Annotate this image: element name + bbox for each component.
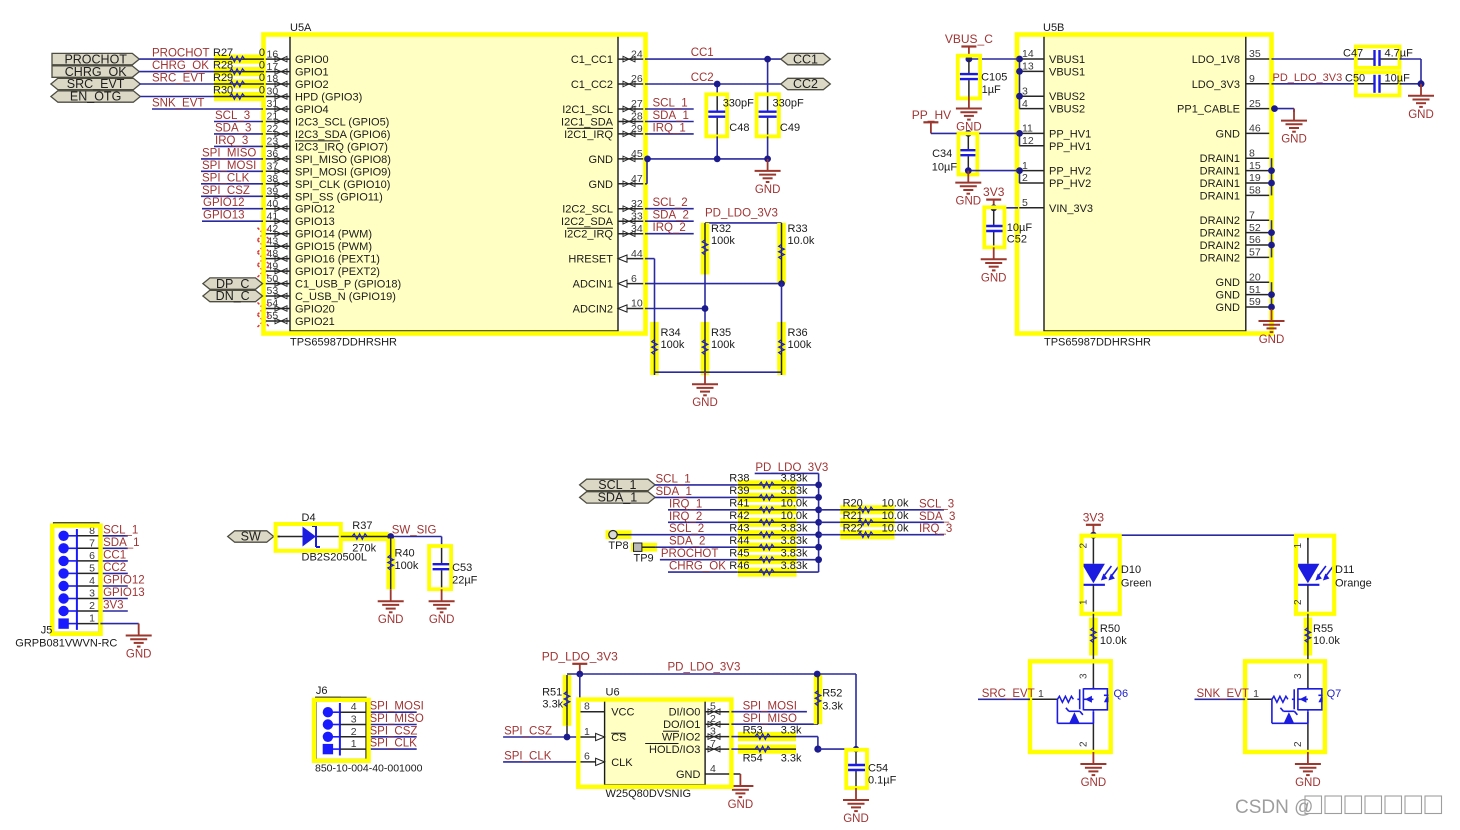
wire R41 to bus xyxy=(797,509,819,511)
resistor R53 3.3k xyxy=(738,732,796,741)
svg-text:100k: 100k xyxy=(711,339,735,351)
svg-text:DO/IO1: DO/IO1 xyxy=(663,719,700,731)
U5A pin 17 GPIO1 xyxy=(263,71,290,73)
wire J5 net CC2 xyxy=(100,572,127,574)
svg-text:6: 6 xyxy=(631,273,637,285)
port PROCHOT xyxy=(52,53,139,64)
capacitor C34 10uF xyxy=(967,133,969,149)
svg-text:VCC: VCC xyxy=(611,707,634,719)
svg-text:22µF: 22µF xyxy=(452,575,478,587)
ground below U6 pin4 xyxy=(727,774,753,797)
connector J6 850-10-004-40-001000 body xyxy=(316,697,366,759)
wire SNK_EVT xyxy=(152,108,263,110)
U5A pin 28 I2C1_SDA xyxy=(618,121,645,123)
wire J6 net SPI_CSZ xyxy=(369,736,417,738)
U5B pin 12 PP_HV1 xyxy=(1018,145,1044,147)
resistor R34 100k xyxy=(650,322,659,375)
svg-text:52: 52 xyxy=(1249,222,1261,234)
svg-text:50: 50 xyxy=(267,273,279,285)
junction C52 top xyxy=(990,204,997,211)
svg-text:SDA_3: SDA_3 xyxy=(919,511,955,523)
svg-text:3.3k: 3.3k xyxy=(781,724,802,736)
ground below pin25 xyxy=(1281,109,1307,132)
J5 pin 6 xyxy=(58,556,68,566)
svg-text:C53: C53 xyxy=(452,562,472,574)
U6 pin 2 DO/IO1 xyxy=(705,723,731,725)
svg-text:IRQ_1: IRQ_1 xyxy=(669,498,702,510)
U6 pin 1 CS xyxy=(578,736,604,738)
junction C105 top xyxy=(966,56,973,63)
wire net IRQ_1 xyxy=(645,133,694,135)
svg-text:R28: R28 xyxy=(213,59,233,71)
junction CC1/C49 xyxy=(764,56,771,63)
svg-text:11: 11 xyxy=(1022,123,1033,135)
wire net CHRG_OK xyxy=(139,71,214,73)
svg-text:CC2: CC2 xyxy=(691,72,714,84)
resistor R44 3.83k xyxy=(738,543,797,552)
port SCL_1 xyxy=(580,479,656,490)
wire TP8 to R43 xyxy=(630,534,668,536)
svg-text:PP_HV2: PP_HV2 xyxy=(1049,178,1091,190)
svg-text:4: 4 xyxy=(89,575,95,587)
wire net SPI_CSZ xyxy=(201,195,263,197)
wire J6 net SPI_MISO xyxy=(369,724,417,726)
U5A pin 44 HRESET xyxy=(618,258,645,260)
ground below C34 xyxy=(955,171,981,194)
svg-text:C1_CC1: C1_CC1 xyxy=(571,54,613,66)
svg-text:5: 5 xyxy=(89,562,95,574)
capacitor C52 10uF xyxy=(993,208,995,225)
wire R21 to net SDA_3 xyxy=(895,521,944,523)
U5B pin 19 DRAIN1 xyxy=(1246,182,1272,184)
U5A pin 16 GPIO0 xyxy=(263,58,290,60)
svg-text:CLK: CLK xyxy=(611,757,633,769)
wire J5 net GPIO12 xyxy=(100,585,127,587)
svg-text:SW: SW xyxy=(241,530,261,544)
svg-text:I2C3_IRQ (GPIO7): I2C3_IRQ (GPIO7) xyxy=(295,141,388,153)
svg-text:13: 13 xyxy=(1022,61,1034,73)
op-amp U5B IC body TPS65987DDHRSHR xyxy=(1044,36,1246,332)
svg-text:SCL_1: SCL_1 xyxy=(656,473,691,485)
svg-text:I2C3_SDA (GPIO6): I2C3_SDA (GPIO6) xyxy=(295,129,390,141)
svg-text:4: 4 xyxy=(710,763,716,775)
svg-text:3: 3 xyxy=(89,588,95,600)
junction D10 top xyxy=(1090,532,1097,539)
U5B pin 13 VBUS1 xyxy=(1018,70,1044,72)
svg-text:GND: GND xyxy=(429,614,455,626)
wire ADCIN1 xyxy=(645,283,782,285)
wire SPI_MOSI xyxy=(731,711,807,713)
wire net IRQ_3 xyxy=(214,145,263,147)
svg-text:8: 8 xyxy=(584,701,590,713)
svg-text:1: 1 xyxy=(89,613,95,625)
wire net SDA_1 xyxy=(645,121,694,123)
wire C50 to junction xyxy=(1400,83,1422,85)
svg-text:GPIO13: GPIO13 xyxy=(203,210,245,222)
svg-text:DN_C: DN_C xyxy=(216,289,250,303)
U5B pin 46 GND xyxy=(1246,132,1272,134)
svg-text:R55: R55 xyxy=(1313,623,1333,635)
svg-text:R39: R39 xyxy=(729,485,749,497)
svg-text:LDO_1V8: LDO_1V8 xyxy=(1192,54,1240,66)
svg-text:10.0k: 10.0k xyxy=(882,498,909,510)
test point TP9 xyxy=(631,543,657,552)
svg-text:SPI_MISO: SPI_MISO xyxy=(743,713,797,725)
svg-text:3.83k: 3.83k xyxy=(781,523,808,535)
svg-text:J5: J5 xyxy=(41,625,53,637)
wire 3V3 rail to D11 xyxy=(1093,534,1308,536)
U5B pin 11 PP_HV1 xyxy=(1018,132,1044,134)
wire net SCL_2 xyxy=(668,534,738,536)
svg-text:2: 2 xyxy=(89,600,95,612)
wire 3V3 to pin5 xyxy=(994,207,1018,209)
svg-text:J6: J6 xyxy=(316,685,328,697)
wire SPI_CSZ xyxy=(503,736,578,738)
svg-text:3.83k: 3.83k xyxy=(781,560,808,572)
U5B pin 25 PP1_CABLE xyxy=(1246,108,1272,110)
svg-text:53: 53 xyxy=(267,285,279,297)
svg-text:4.7µF: 4.7µF xyxy=(1385,48,1414,60)
svg-text:GPIO13: GPIO13 xyxy=(295,216,335,228)
svg-text:SRC_EVT: SRC_EVT xyxy=(982,688,1035,700)
svg-text:22: 22 xyxy=(267,123,279,135)
wire bus to R22 xyxy=(819,534,841,536)
svg-text:SCL_1: SCL_1 xyxy=(653,98,688,110)
svg-text:SPI_CSZ: SPI_CSZ xyxy=(370,725,418,737)
ground below Q7 xyxy=(1295,752,1321,775)
svg-text:PD_LDO_3V3: PD_LDO_3V3 xyxy=(668,661,741,673)
connector J5 GRPB081VWVN-RC body xyxy=(54,523,100,633)
junction R40 top xyxy=(387,533,394,540)
J5 pin 3 xyxy=(58,593,68,603)
wire R20 to net SCL_3 xyxy=(895,509,944,511)
wire PD_LDO_3V3 xyxy=(705,222,782,224)
svg-text:VBUS2: VBUS2 xyxy=(1049,104,1085,116)
svg-text:I2C2_SCL: I2C2_SCL xyxy=(562,204,613,216)
svg-text:C52: C52 xyxy=(1007,234,1027,246)
svg-text:GRPB081VWVN-RC: GRPB081VWVN-RC xyxy=(15,638,117,650)
junction pin13 xyxy=(1016,68,1023,75)
U5B pin 3 VBUS2 xyxy=(1018,95,1044,97)
svg-text:PD_LDO_3V3: PD_LDO_3V3 xyxy=(705,208,778,220)
svg-text:GND: GND xyxy=(676,769,701,781)
svg-text:47: 47 xyxy=(631,173,643,185)
svg-text:I2C1_SDA: I2C1_SDA xyxy=(561,117,614,129)
capacitor C105 1uF xyxy=(968,59,970,73)
svg-text:EN_OTG: EN_OTG xyxy=(70,90,121,104)
wire R37 to SW_SIG node xyxy=(389,536,442,538)
resistor R38 3.83k xyxy=(738,480,797,489)
wire HRESET xyxy=(645,258,655,260)
svg-text:Green: Green xyxy=(1121,578,1152,590)
svg-text:14: 14 xyxy=(1022,48,1034,60)
svg-text:3: 3 xyxy=(710,726,716,738)
svg-text:DRAIN2: DRAIN2 xyxy=(1200,228,1240,240)
wire PP1_CABLE xyxy=(1272,108,1295,110)
svg-text:SPI_CLK: SPI_CLK xyxy=(202,172,250,184)
svg-text:SDA_2: SDA_2 xyxy=(653,210,689,222)
port DP_C xyxy=(203,278,263,289)
svg-text:R40: R40 xyxy=(395,548,415,560)
junction bus row 2 xyxy=(815,506,822,513)
svg-text:R34: R34 xyxy=(661,327,681,339)
svg-text:VBUS2: VBUS2 xyxy=(1049,91,1085,103)
svg-text:SDA_1: SDA_1 xyxy=(653,110,689,122)
svg-text:R50: R50 xyxy=(1100,623,1120,635)
U5A pin 21 I2C3_SCL (GPIO5) xyxy=(263,121,290,123)
svg-text:28: 28 xyxy=(631,111,643,123)
U5B pin 7 DRAIN2 xyxy=(1246,219,1272,221)
svg-text:26: 26 xyxy=(631,73,643,85)
svg-text:LDO_3V3: LDO_3V3 xyxy=(1192,79,1240,91)
svg-text:R52: R52 xyxy=(822,687,842,699)
junction pin11 xyxy=(1016,130,1023,137)
svg-text:GPIO1: GPIO1 xyxy=(295,67,329,79)
svg-text:10µF: 10µF xyxy=(1385,72,1411,84)
svg-text:2: 2 xyxy=(1078,741,1089,747)
U5A pin 34 I2C2_IRQ xyxy=(618,233,645,235)
resistor R51 3.3k xyxy=(563,675,572,726)
svg-text:3.3k: 3.3k xyxy=(822,700,843,712)
wire net GPIO13 xyxy=(202,220,263,222)
junction pin52 xyxy=(1268,229,1275,236)
resistor R20 10.0k xyxy=(840,505,894,514)
svg-text:15: 15 xyxy=(1249,160,1261,172)
capacitor C48 330pF xyxy=(716,95,718,111)
svg-text:100k: 100k xyxy=(711,235,735,247)
svg-text:TPS65987DDHRSHR: TPS65987DDHRSHR xyxy=(1044,337,1151,349)
svg-text:3V3: 3V3 xyxy=(1083,510,1105,524)
U5B pin 56 DRAIN2 xyxy=(1246,244,1272,246)
wire C47 to corner xyxy=(1400,58,1422,60)
svg-text:I2C2_IRQ: I2C2_IRQ xyxy=(564,229,613,241)
junction pin14 xyxy=(1016,56,1023,63)
wire R53 to R54 row xyxy=(796,736,818,738)
svg-text:GPIO4: GPIO4 xyxy=(295,104,329,116)
U5B pin 20 GND xyxy=(1246,281,1272,283)
U5A pin 29 I2C1_IRQ xyxy=(618,133,645,135)
svg-text:IRQ_2: IRQ_2 xyxy=(653,222,686,234)
J6 pin 2 xyxy=(323,732,333,742)
svg-text:45: 45 xyxy=(631,148,643,160)
svg-text:SPI_MOSI (GPIO9): SPI_MOSI (GPIO9) xyxy=(295,166,391,178)
U5A pin 54 GPIO20 xyxy=(263,308,290,310)
wire J6 net SPI_MOSI xyxy=(369,711,417,713)
wire net SRC_EVT xyxy=(139,83,214,85)
no-connect pin 42 xyxy=(258,228,270,240)
svg-text:40: 40 xyxy=(267,198,279,210)
resistor R41 10.0k xyxy=(738,505,797,514)
U5B pin 9 LDO_3V3 xyxy=(1246,83,1272,85)
wire net GPIO12 xyxy=(202,208,263,210)
svg-text:SPI_MOSI: SPI_MOSI xyxy=(743,700,797,712)
wire R22 to net IRQ_3 xyxy=(895,534,944,536)
svg-text:D11: D11 xyxy=(1335,564,1354,576)
wire C48/C49 to GND rail xyxy=(716,136,718,159)
svg-text:SDA_1: SDA_1 xyxy=(103,537,139,549)
svg-text:C47: C47 xyxy=(1343,48,1363,60)
svg-text:R20: R20 xyxy=(843,498,863,510)
svg-text:C1_CC2: C1_CC2 xyxy=(571,79,613,91)
svg-text:GND: GND xyxy=(1081,777,1107,789)
junction R53/R54 xyxy=(814,746,821,753)
svg-text:3.83k: 3.83k xyxy=(781,535,808,547)
svg-text:W25Q80DVSNIG: W25Q80DVSNIG xyxy=(606,788,692,800)
wire LDO_1V8 to C47 xyxy=(1272,58,1357,60)
capacitor C49 330pF xyxy=(767,95,769,111)
resistor R45 3.83k xyxy=(738,555,797,564)
junction bus row 6 xyxy=(815,556,822,563)
U5A pin 31 GPIO4 xyxy=(263,108,290,110)
resistor R35 100k xyxy=(701,322,710,375)
wire R38 to bus xyxy=(797,484,819,486)
capacitor C53 22uF xyxy=(441,548,443,563)
resistor R43 3.83k xyxy=(738,530,797,539)
wire SW_SIG down to C53 xyxy=(441,537,443,549)
resistor R50 10.0k xyxy=(1089,618,1098,656)
U5A pin 6 ADCIN1 xyxy=(618,283,645,285)
U5A pin 33 I2C2_SDA xyxy=(618,220,645,222)
U5A pin 50 C1_USB_P (GPIO18) xyxy=(263,283,290,285)
U5A pin 18 GPIO2 xyxy=(263,83,290,85)
svg-text:GND: GND xyxy=(956,196,982,208)
svg-text:SRC_EVT: SRC_EVT xyxy=(152,73,205,85)
wire R39 to bus xyxy=(797,496,819,498)
U5B pin 59 GND xyxy=(1246,306,1272,308)
junction C34 top xyxy=(965,130,972,137)
U5B pin 52 DRAIN2 xyxy=(1246,232,1272,234)
no-connect pin 43 xyxy=(258,240,270,252)
wire PP_HV1 bus pins 11-12 xyxy=(1019,133,1021,145)
svg-text:R38: R38 xyxy=(729,473,749,485)
svg-text:SPI_CLK (GPIO10): SPI_CLK (GPIO10) xyxy=(295,179,390,191)
U5B pin 35 LDO_1V8 xyxy=(1246,58,1272,60)
transistor Q7 N-MOSFET xyxy=(1307,661,1309,688)
J5 pin 5 xyxy=(58,568,68,578)
J6 pin 3 xyxy=(323,719,333,729)
svg-text:SPI_CSZ: SPI_CSZ xyxy=(202,185,250,197)
svg-text:Q7: Q7 xyxy=(1327,688,1342,700)
svg-text:C105: C105 xyxy=(981,71,1007,83)
svg-text:SPI_SS (GPIO11): SPI_SS (GPIO11) xyxy=(295,191,383,203)
svg-text:GND: GND xyxy=(1216,302,1241,314)
wire GND rail pins 45/47 xyxy=(645,158,768,160)
U5B pin 15 DRAIN1 xyxy=(1246,170,1272,172)
svg-text:IRQ_1: IRQ_1 xyxy=(653,122,686,134)
svg-text:9: 9 xyxy=(1249,73,1255,85)
svg-text:PD_LDO_3V3: PD_LDO_3V3 xyxy=(1273,72,1343,84)
wire net PROCHOT xyxy=(660,559,738,561)
svg-text:U6: U6 xyxy=(606,687,620,699)
svg-text:R33: R33 xyxy=(788,223,808,235)
svg-text:SCL_2: SCL_2 xyxy=(669,523,704,535)
svg-text:12: 12 xyxy=(1022,135,1034,147)
wire TP9 to R44 xyxy=(655,546,668,548)
svg-text:CSDN @: CSDN @ xyxy=(1235,797,1313,818)
svg-text:DRAIN1: DRAIN1 xyxy=(1200,178,1240,190)
resistor R33 10.0k xyxy=(777,223,786,284)
svg-text:SDA_1: SDA_1 xyxy=(598,491,638,505)
wire R42 to bus xyxy=(797,521,819,523)
svg-text:3.3k: 3.3k xyxy=(542,699,563,711)
svg-text:GPIO17 (PEXT2): GPIO17 (PEXT2) xyxy=(295,266,380,278)
J6 pin 1 xyxy=(323,744,333,754)
U5A pin 36 SPI_MISO (GPIO8) xyxy=(263,158,290,160)
U5B highlight frame xyxy=(1017,35,1272,334)
wire net SPI_MISO xyxy=(201,158,263,160)
svg-text:36: 36 xyxy=(267,148,279,160)
svg-text:SCL_3: SCL_3 xyxy=(215,110,250,122)
U5A pin 42 GPIO14 (PWM) xyxy=(263,233,290,235)
svg-text:SCL_1: SCL_1 xyxy=(103,524,138,536)
svg-text:HPD (GPIO3): HPD (GPIO3) xyxy=(295,92,362,104)
svg-text:3: 3 xyxy=(351,714,357,726)
wire J5 net GPIO13 xyxy=(100,598,127,600)
J5 highlight frame xyxy=(52,526,100,634)
svg-text:10.0k: 10.0k xyxy=(882,523,909,535)
wire CC1 xyxy=(645,58,781,60)
junction pin45 xyxy=(644,156,651,163)
ground below C53 xyxy=(429,589,455,612)
svg-text:IRQ_3: IRQ_3 xyxy=(215,135,248,147)
U5A pin 24 C1_CC1 xyxy=(618,58,645,60)
wire PP_HV to pin11 xyxy=(931,132,1018,134)
J5 pin 1 xyxy=(58,618,68,628)
svg-text:VIN_3V3: VIN_3V3 xyxy=(1049,203,1093,215)
wire pin3 to R53 xyxy=(731,736,738,738)
wire PD_LDO_3V3 bus top xyxy=(755,472,819,474)
ground below C52 xyxy=(981,247,1007,270)
svg-text:CC1: CC1 xyxy=(103,549,126,561)
wire net SNK_EVT xyxy=(1195,698,1246,700)
svg-text:R53: R53 xyxy=(743,724,763,736)
svg-text:GPIO15 (PWM): GPIO15 (PWM) xyxy=(295,241,372,253)
wire net SCL_3 xyxy=(214,121,263,123)
U6 pin 6 CLK xyxy=(578,761,604,763)
svg-text:TP8: TP8 xyxy=(608,540,628,552)
svg-text:16: 16 xyxy=(267,48,279,60)
U5A highlight frame xyxy=(264,35,646,334)
svg-text:7: 7 xyxy=(89,537,95,549)
U5B pin 4 VBUS2 xyxy=(1018,108,1044,110)
svg-text:3.83k: 3.83k xyxy=(781,473,808,485)
U5B pin 57 DRAIN2 xyxy=(1246,256,1272,258)
junction rail/C54 xyxy=(853,746,859,752)
svg-text:R30: R30 xyxy=(213,84,233,96)
svg-text:GPIO2: GPIO2 xyxy=(295,79,329,91)
svg-text:SPI_CSZ: SPI_CSZ xyxy=(504,726,552,738)
port CHRG_OK xyxy=(52,66,139,77)
svg-text:CC1: CC1 xyxy=(793,52,818,66)
svg-text:10µF: 10µF xyxy=(1007,222,1033,234)
svg-text:30: 30 xyxy=(267,86,279,98)
U6 pin 4 GND xyxy=(705,773,740,775)
svg-text:8: 8 xyxy=(1249,147,1255,159)
svg-text:19: 19 xyxy=(1249,172,1261,184)
J5 pin 4 xyxy=(58,581,68,591)
port SRC_EVT xyxy=(51,78,140,89)
U5B pin 58 DRAIN1 xyxy=(1246,194,1272,196)
svg-text:SPI_CLK: SPI_CLK xyxy=(370,738,418,750)
svg-text:DRAIN2: DRAIN2 xyxy=(1200,252,1240,264)
wire net SCL_2 xyxy=(645,208,694,210)
svg-text:C49: C49 xyxy=(780,122,800,134)
svg-text:SNK_EVT: SNK_EVT xyxy=(1197,688,1249,700)
svg-text:GPIO16 (PEXT1): GPIO16 (PEXT1) xyxy=(295,254,380,266)
svg-text:DI/IO0: DI/IO0 xyxy=(669,707,701,719)
svg-text:58: 58 xyxy=(1249,185,1261,197)
svg-text:32: 32 xyxy=(631,198,643,210)
